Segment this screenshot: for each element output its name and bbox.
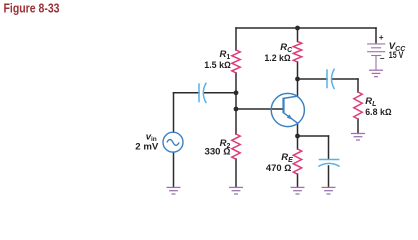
svg-text:330 Ω: 330 Ω [205,147,231,157]
svg-text:6.8 kΩ: 6.8 kΩ [365,107,391,117]
svg-text:−: − [380,54,385,63]
svg-text:1.2 kΩ: 1.2 kΩ [264,53,290,63]
svg-text:+: + [379,33,384,42]
svg-text:2 mV: 2 mV [135,141,158,151]
svg-text:470 Ω: 470 Ω [266,163,292,173]
svg-text:1.5 kΩ: 1.5 kΩ [204,60,231,70]
svg-text:Figure 8-33: Figure 8-33 [4,2,60,16]
svg-text:15 V: 15 V [389,50,404,60]
